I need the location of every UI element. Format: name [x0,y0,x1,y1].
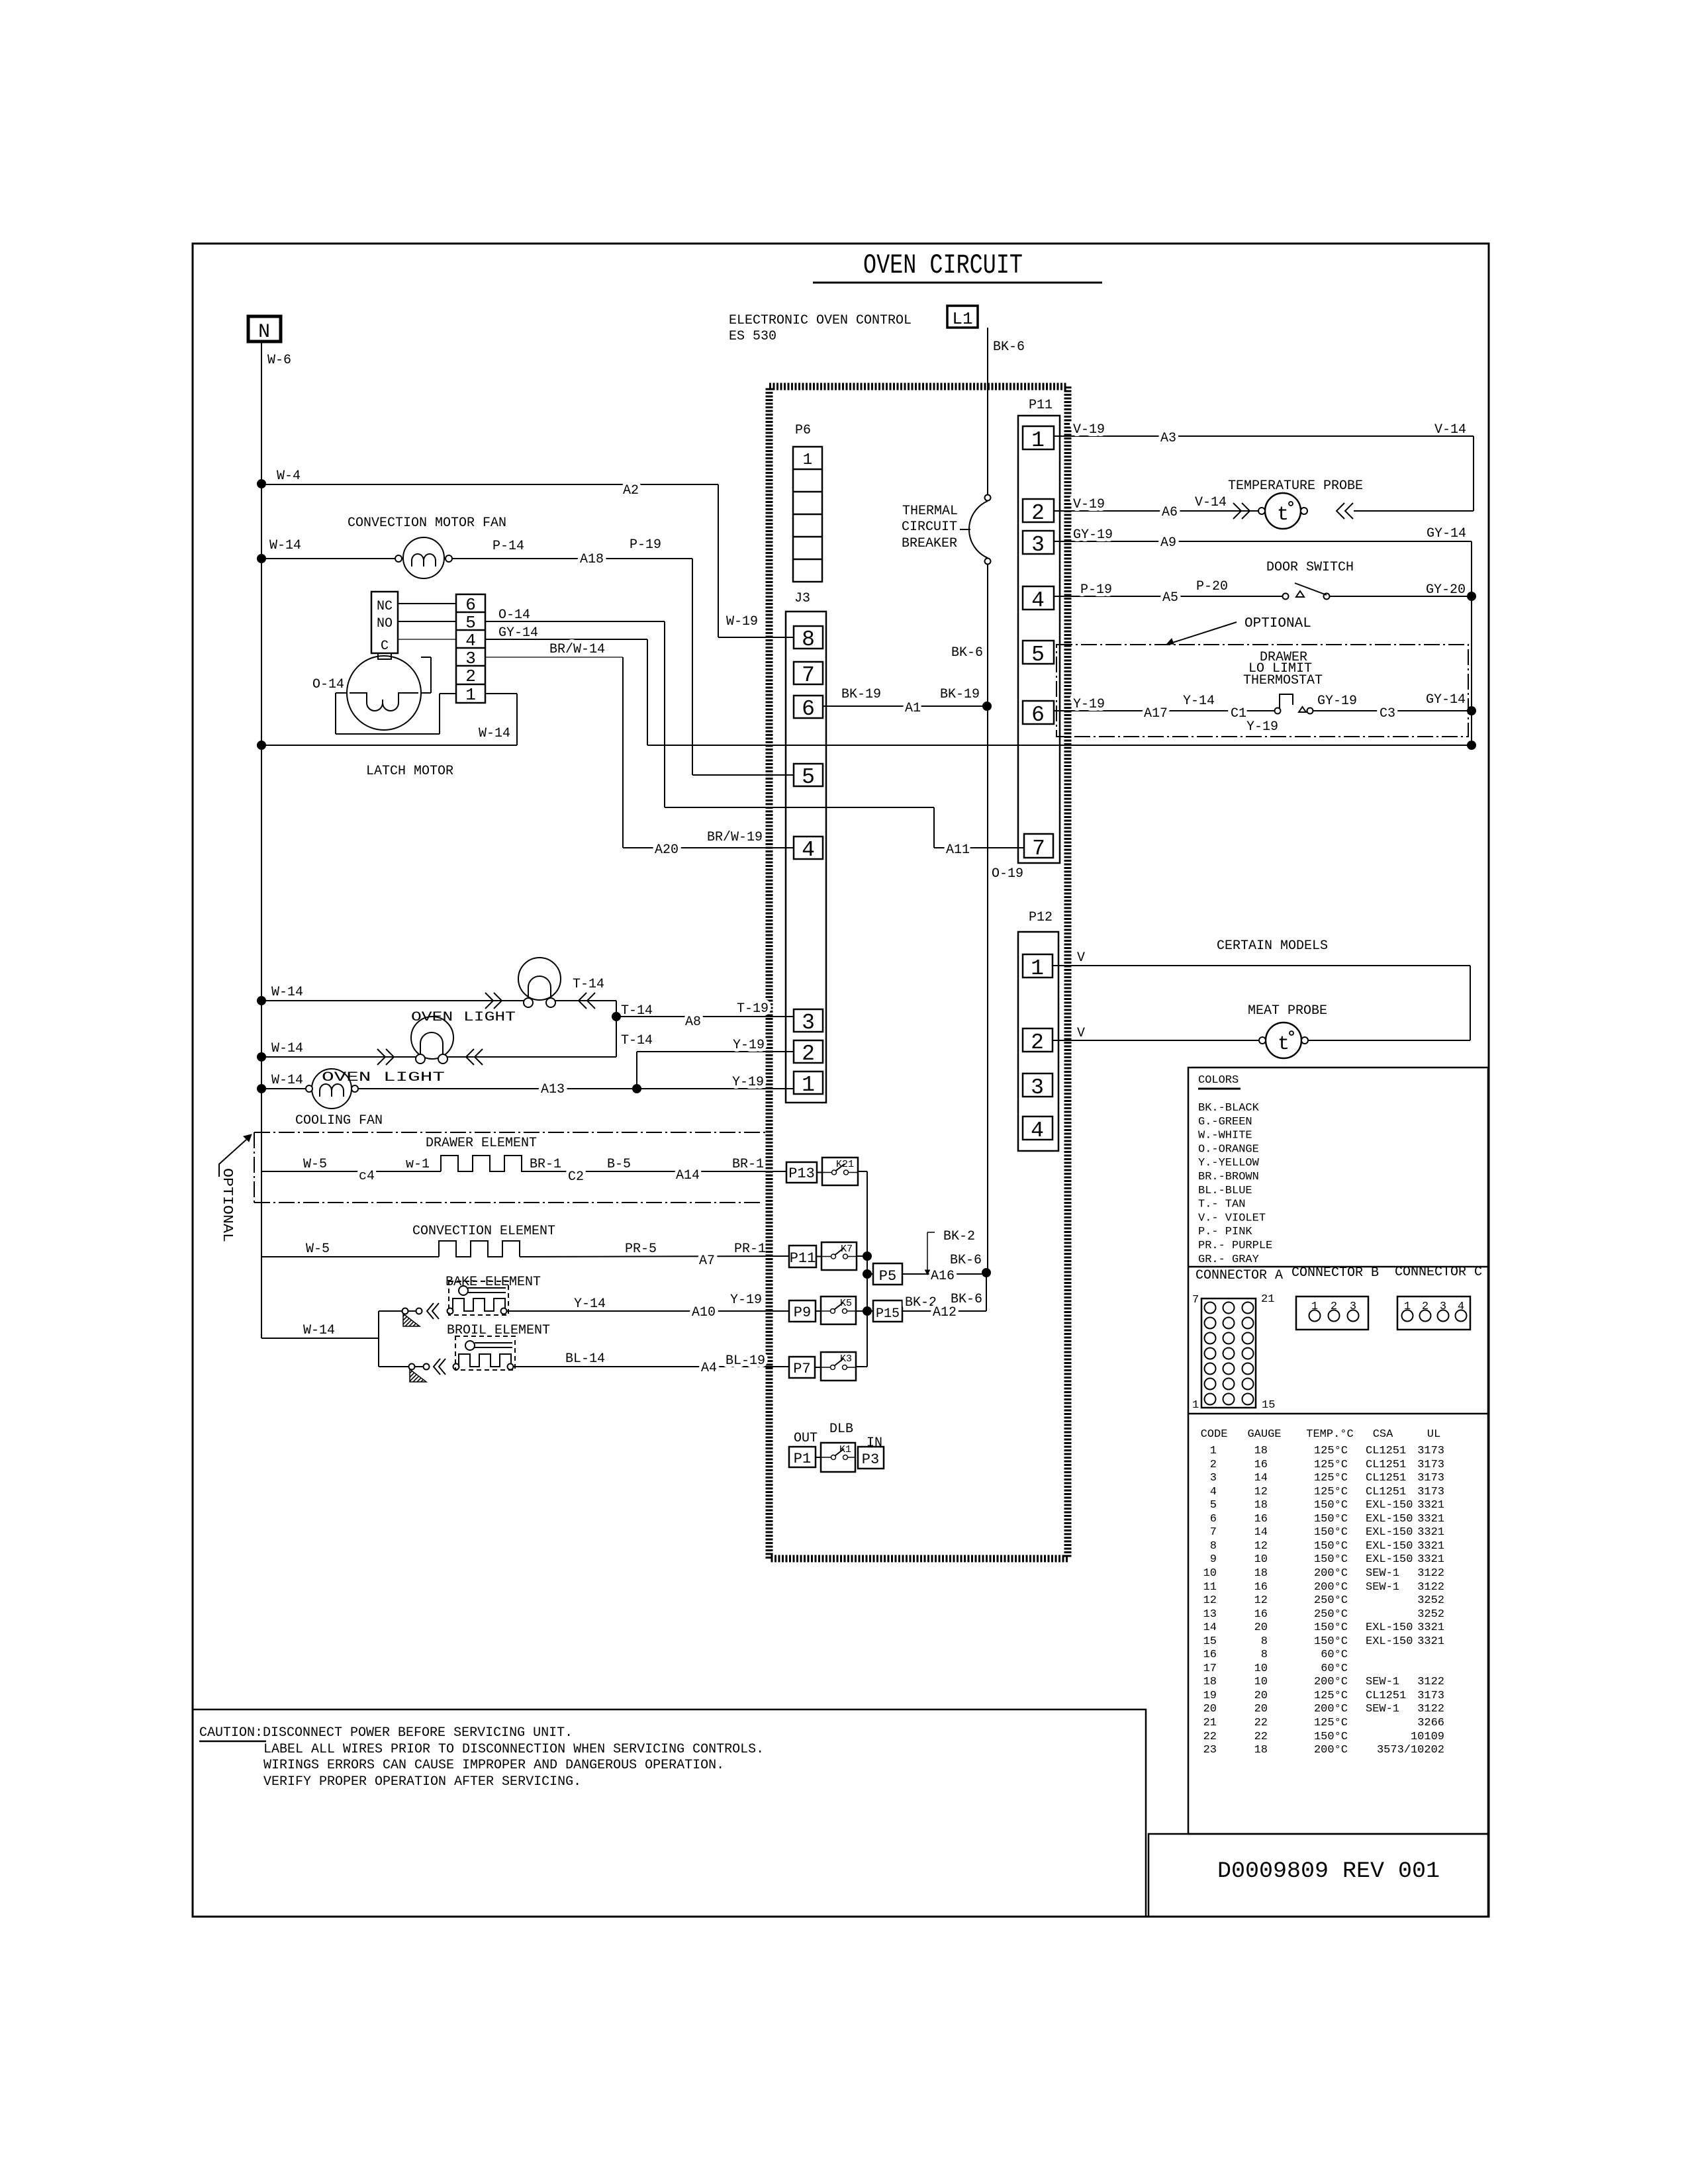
svg-text:200°C: 200°C [1314,1676,1348,1688]
svg-text:60°C: 60°C [1321,1649,1348,1661]
svg-text:P1: P1 [794,1451,811,1467]
svg-text:EXL-150: EXL-150 [1366,1553,1413,1566]
svg-text:K1: K1 [839,1444,851,1455]
svg-text:BL-19: BL-19 [726,1353,765,1369]
svg-text:A20: A20 [655,842,679,858]
svg-text:T-14: T-14 [621,1033,653,1048]
wire P12 pin2 V to meat probe [1053,1040,1259,1041]
svg-text:EXL-150: EXL-150 [1366,1621,1413,1634]
svg-text:10: 10 [1254,1553,1268,1566]
svg-text:C2: C2 [568,1169,584,1185]
svg-text:7: 7 [1192,1294,1199,1306]
svg-text:G.-GREEN: G.-GREEN [1198,1116,1252,1128]
svg-text:8: 8 [1261,1649,1268,1661]
svg-text:200°C: 200°C [1314,1703,1348,1715]
svg-text:3321: 3321 [1417,1621,1444,1634]
svg-text:150°C: 150°C [1314,1553,1348,1566]
svg-text:4: 4 [1031,1118,1044,1143]
svg-text:GY-14: GY-14 [1426,692,1466,707]
svg-text:GY-14: GY-14 [1427,526,1466,541]
svg-text:A18: A18 [580,552,604,567]
svg-text:18: 18 [1254,1567,1268,1580]
svg-text:A7: A7 [699,1253,715,1269]
svg-text:2: 2 [1031,501,1045,525]
svg-text:PR-5: PR-5 [625,1242,657,1257]
svg-text:CL1251: CL1251 [1366,1445,1406,1457]
svg-text:V-19: V-19 [1073,497,1105,512]
svg-text:V-14: V-14 [1434,422,1466,437]
P11 pin 1 [1023,426,1054,449]
svg-text:12: 12 [1254,1486,1268,1498]
svg-text:3321: 3321 [1417,1540,1444,1553]
svg-text:BK-19: BK-19 [940,687,980,702]
svg-text:1: 1 [1031,428,1045,453]
svg-text:125°C: 125°C [1314,1472,1348,1484]
svg-text:L1: L1 [952,309,972,329]
svg-text:1: 1 [802,1073,815,1097]
svg-text:2: 2 [1422,1300,1429,1313]
svg-text:ES 530: ES 530 [729,329,776,344]
svg-text:CSA: CSA [1373,1428,1393,1441]
svg-text:CERTAIN MODELS: CERTAIN MODELS [1217,938,1328,954]
svg-text:OVEN CIRCUIT: OVEN CIRCUIT [863,250,1023,281]
svg-text:W-14: W-14 [479,726,510,741]
svg-text:3: 3 [1440,1300,1446,1313]
svg-text:CONNECTOR C: CONNECTOR C [1395,1265,1482,1280]
relay contact K5 [821,1297,856,1324]
oven light 2 [257,1052,266,1062]
svg-text:P9: P9 [794,1304,811,1321]
P11 pin 3 [1023,531,1054,554]
plug P9 [789,1300,816,1322]
J3 pin 2 [794,1040,823,1063]
svg-text:BK-6: BK-6 [951,645,983,660]
svg-text:4: 4 [1458,1300,1464,1313]
svg-text:A8: A8 [685,1015,701,1030]
svg-text:VERIFY PROPER OPERATION AFTER: VERIFY PROPER OPERATION AFTER SERVICING. [263,1774,581,1790]
svg-text:3252: 3252 [1417,1608,1444,1621]
svg-text:O-19: O-19 [992,866,1023,882]
svg-text:P11: P11 [790,1250,816,1267]
svg-text:D0009809 REV 001: D0009809 REV 001 [1217,1859,1440,1884]
svg-text:6: 6 [802,697,815,721]
J3 pin 6 [794,696,823,718]
svg-text:3321: 3321 [1417,1553,1444,1566]
svg-text:5: 5 [802,765,815,790]
svg-text:BREAKER: BREAKER [902,536,957,551]
svg-text:Y-19: Y-19 [1246,719,1278,735]
svg-text:A4: A4 [701,1361,717,1376]
svg-text:A5: A5 [1162,590,1178,606]
svg-text:150°C: 150°C [1314,1513,1348,1525]
svg-text:3122: 3122 [1417,1703,1444,1715]
svg-text:DRAWER ELEMENT: DRAWER ELEMENT [426,1136,537,1151]
bake element dashed outline + heater [449,1281,508,1315]
connector P12 outline [1018,932,1058,1151]
svg-text:3252: 3252 [1417,1594,1444,1607]
svg-text:V-14: V-14 [1195,495,1227,510]
wire P15 to A12 to BK-6 vertical [902,1310,986,1312]
svg-text:1: 1 [1192,1399,1199,1412]
svg-text:3: 3 [1350,1300,1356,1313]
svg-text:LATCH MOTOR: LATCH MOTOR [366,764,453,779]
svg-text:O-14: O-14 [498,608,530,623]
svg-text:A9: A9 [1160,535,1176,551]
svg-text:8: 8 [1210,1540,1217,1553]
plug P11 [789,1246,816,1267]
svg-text:BK-6: BK-6 [993,340,1025,355]
svg-text:P13: P13 [788,1165,815,1182]
plug P3 [858,1447,884,1469]
svg-text:150°C: 150°C [1314,1540,1348,1553]
svg-text:TEMP.°C: TEMP.°C [1306,1428,1353,1441]
svg-text:16: 16 [1254,1581,1268,1594]
svg-text:BL.-BLUE: BL.-BLUE [1198,1185,1252,1197]
wire C to pin 4 [398,639,456,640]
svg-text:V.- VIOLET: V.- VIOLET [1198,1212,1266,1224]
svg-text:2: 2 [1331,1300,1337,1313]
svg-text:150°C: 150°C [1314,1731,1348,1743]
svg-text:3: 3 [1031,1075,1044,1100]
svg-text:3: 3 [1031,533,1045,557]
broil chassis ground [409,1364,415,1370]
svg-text:t: t [1277,504,1289,526]
svg-text:3173: 3173 [1417,1486,1444,1498]
svg-text:OVEN LIGHT: OVEN LIGHT [322,1070,445,1085]
svg-text:BK-6: BK-6 [951,1292,982,1307]
svg-text:4: 4 [802,838,815,862]
svg-text:21: 21 [1261,1293,1274,1306]
svg-text:P7: P7 [793,1361,810,1377]
svg-text:EXL-150: EXL-150 [1366,1540,1413,1553]
svg-text:CONNECTOR A: CONNECTOR A [1196,1268,1283,1283]
wire BK-6 breaker to A1 junction [987,564,988,706]
svg-text:A16: A16 [931,1269,955,1284]
svg-text:BK-2: BK-2 [905,1295,937,1310]
svg-text:OPTIONAL: OPTIONAL [1244,616,1311,631]
svg-text:W-4: W-4 [277,469,301,484]
svg-text:4: 4 [1210,1486,1217,1498]
svg-text:18: 18 [1254,1445,1268,1457]
svg-text:LABEL ALL WIRES PRIOR TO DISCO: LABEL ALL WIRES PRIOR TO DISCONNECTION W… [263,1742,764,1757]
svg-text:125°C: 125°C [1314,1717,1348,1729]
node L1 [947,306,978,328]
svg-text:11: 11 [1203,1581,1217,1594]
svg-text:UL: UL [1427,1428,1440,1441]
svg-text:W-19: W-19 [726,614,758,629]
svg-text:19: 19 [1203,1690,1217,1702]
svg-text:150°C: 150°C [1314,1621,1348,1634]
svg-text:125°C: 125°C [1314,1459,1348,1471]
svg-text:BR-1: BR-1 [732,1157,764,1172]
svg-text:200°C: 200°C [1314,1744,1348,1756]
svg-text:8: 8 [1261,1635,1268,1648]
wire P11 pin1 V-19/A3/V-14 temperature probe loop [1054,435,1474,437]
P11 pin 7 [1024,834,1053,858]
P11 pin 5 [1023,641,1054,664]
svg-text:A6: A6 [1162,505,1178,520]
svg-text:150°C: 150°C [1314,1526,1348,1539]
svg-text:P-19: P-19 [630,537,661,553]
svg-text:5: 5 [1031,643,1045,667]
svg-text:3122: 3122 [1417,1676,1444,1688]
control board hatched border [769,387,1068,1559]
svg-text:DLB: DLB [829,1422,853,1437]
svg-text:10109: 10109 [1411,1731,1444,1743]
svg-text:10: 10 [1203,1567,1217,1580]
svg-text:c4: c4 [359,1169,375,1184]
latch motor switch NC/NO/C [371,592,398,653]
svg-text:12: 12 [1254,1540,1268,1553]
svg-text:SEW-1: SEW-1 [1366,1676,1399,1688]
svg-text:A3: A3 [1160,431,1176,446]
drawer lo limit thermostat dash-dot box [1056,645,1468,737]
svg-text:WIRINGS ERRORS CAN CAUSE IMPRO: WIRINGS ERRORS CAN CAUSE IMPROPER AND DA… [263,1758,724,1773]
wire W-4 / A2 to J3 pin 8 [257,479,266,488]
svg-text:THERMAL: THERMAL [902,504,958,519]
svg-text:CL1251: CL1251 [1366,1472,1406,1484]
svg-text:5: 5 [1210,1499,1217,1512]
svg-text:W-14: W-14 [271,985,303,1000]
svg-text:9: 9 [1210,1553,1217,1566]
svg-text:C3: C3 [1380,706,1395,721]
svg-text:GR.- GRAY: GR.- GRAY [1198,1253,1259,1266]
svg-text:T-19: T-19 [737,1001,769,1017]
svg-text:3: 3 [1210,1472,1217,1484]
svg-text:C: C [381,639,389,654]
svg-text:P15: P15 [876,1306,900,1322]
svg-text:7: 7 [1210,1526,1217,1539]
svg-text:250°C: 250°C [1314,1594,1348,1607]
svg-text:A12: A12 [933,1305,957,1320]
connector P11 outline [1018,416,1060,863]
svg-text:3266: 3266 [1417,1717,1444,1729]
svg-text:CIRCUIT: CIRCUIT [902,520,957,535]
svg-text:2: 2 [802,1042,815,1066]
svg-text:P-19: P-19 [1080,582,1112,598]
wire P-14 / A18 / P-19 to J3 pin 5 [452,558,692,559]
P12 pin 1 [1023,954,1053,978]
svg-text:P6: P6 [795,423,811,438]
svg-text:14: 14 [1254,1526,1268,1539]
svg-text:1: 1 [1210,1445,1217,1457]
wire P5 to A16 to BK-6 junction [902,1273,986,1275]
svg-text:3173: 3173 [1417,1472,1444,1484]
bake chassis ground [402,1308,408,1314]
plug P1 [789,1447,816,1467]
wire P11 pin3 GY-19/A9/GY-14 [1054,541,1472,542]
svg-text:W.-WHITE: W.-WHITE [1198,1130,1252,1142]
svg-text:3321: 3321 [1417,1635,1444,1648]
plug P7 [789,1357,815,1378]
svg-text:20: 20 [1254,1621,1268,1634]
svg-text:t: t [1278,1033,1289,1056]
svg-text:P11: P11 [1029,398,1053,413]
svg-text:150°C: 150°C [1314,1499,1348,1512]
svg-text:CL1251: CL1251 [1366,1459,1406,1471]
latch motor connector 6..1 [456,594,485,703]
svg-text:P.- PINK: P.- PINK [1198,1226,1252,1238]
svg-text:Y-14: Y-14 [574,1297,606,1312]
right column box (colors/connectors/table) [1188,1068,1488,1834]
svg-text:7: 7 [802,663,815,688]
svg-text:15: 15 [1203,1635,1217,1648]
relay contact K7 [821,1242,857,1270]
svg-text:3173: 3173 [1417,1445,1444,1457]
svg-text:Y-19: Y-19 [732,1075,764,1090]
wire NO to pin 5 [398,621,456,622]
svg-text:18: 18 [1254,1744,1268,1756]
svg-text:EXL-150: EXL-150 [1366,1499,1413,1512]
svg-text:W-5: W-5 [306,1242,330,1257]
svg-text:EXL-150: EXL-150 [1366,1526,1413,1539]
relay contact K3 [821,1352,856,1381]
node N (neutral) [248,316,281,341]
wire A13 / Y-19 to J3 pin 1 [358,1088,794,1089]
wire Y-19 branch to J3 pin 2 [636,1052,637,1089]
J3 pin 3 [794,1009,823,1032]
svg-text:W-6: W-6 [267,353,291,368]
svg-text:21: 21 [1203,1717,1217,1729]
thermostat contacts [1275,708,1281,714]
svg-text:20: 20 [1254,1690,1268,1702]
wire BK-6 from L1 [987,328,988,495]
svg-text:8: 8 [802,627,815,652]
svg-text:3122: 3122 [1417,1567,1444,1580]
svg-text:20: 20 [1203,1703,1217,1715]
svg-text:J3: J3 [794,591,810,606]
svg-text:125°C: 125°C [1314,1486,1348,1498]
divider connectors/table [1188,1413,1488,1415]
page border frame [193,244,1489,1917]
relay bus wire [867,1171,868,1367]
svg-text:BK-19: BK-19 [841,687,881,702]
svg-text:3173: 3173 [1417,1459,1444,1471]
svg-text:12: 12 [1254,1594,1268,1607]
svg-text:1: 1 [1404,1300,1411,1313]
svg-text:NC: NC [377,599,393,614]
cooling fan [257,1084,266,1093]
svg-text:N: N [258,321,270,343]
svg-text:1: 1 [465,685,476,705]
svg-text:C1: C1 [1231,706,1246,721]
svg-text:GY-19: GY-19 [1317,694,1357,709]
svg-text:18: 18 [1203,1676,1217,1688]
svg-text:OPTIONAL: OPTIONAL [219,1168,234,1242]
relay contact K21 [822,1158,858,1185]
svg-text:10: 10 [1254,1662,1268,1675]
svg-text:K3: K3 [840,1353,852,1365]
svg-text:22: 22 [1203,1731,1217,1743]
svg-text:O.-ORANGE: O.-ORANGE [1198,1143,1259,1156]
svg-text:CONNECTOR B: CONNECTOR B [1291,1265,1379,1281]
wire W-14 return pin 1 to rail [485,693,517,694]
svg-text:3321: 3321 [1417,1499,1444,1512]
svg-text:A10: A10 [692,1305,716,1320]
relay contact K1 [821,1443,855,1472]
svg-text:W-14: W-14 [303,1323,335,1338]
svg-text:CONVECTION ELEMENT: CONVECTION ELEMENT [412,1224,555,1239]
svg-text:P5: P5 [879,1268,896,1285]
svg-text:2: 2 [1031,1030,1044,1055]
svg-text:O-14: O-14 [312,677,344,692]
svg-text:CL1251: CL1251 [1366,1690,1406,1702]
svg-text:PR-1: PR-1 [734,1242,766,1257]
divider colors/connectors [1188,1266,1488,1268]
plug P13 [786,1162,817,1183]
wire Y-14 / A10 / Y-19 to P9 [506,1310,789,1312]
svg-text:IN: IN [867,1435,882,1451]
svg-text:MEAT PROBE: MEAT PROBE [1248,1003,1327,1019]
svg-text:18: 18 [1254,1499,1268,1512]
svg-text:B-5: B-5 [607,1157,631,1172]
svg-text:14: 14 [1254,1472,1268,1484]
J3 pin 1 [794,1071,823,1094]
svg-text:A1: A1 [905,701,921,716]
convection motor fan [257,554,266,563]
svg-text:3: 3 [802,1011,815,1035]
svg-text:250°C: 250°C [1314,1608,1348,1621]
svg-text:5: 5 [465,613,476,633]
svg-text:A2: A2 [623,483,639,498]
svg-text:SEW-1: SEW-1 [1366,1703,1399,1715]
svg-text:1: 1 [1031,956,1044,981]
plug P5 [873,1263,902,1285]
svg-text:Y-19: Y-19 [1073,697,1105,712]
svg-text:Y.-YELLOW: Y.-YELLOW [1198,1157,1260,1169]
svg-text:P-14: P-14 [492,539,524,554]
svg-text:BR-1: BR-1 [530,1157,561,1172]
svg-text:DOOR SWITCH: DOOR SWITCH [1266,560,1354,575]
svg-text:COLORS: COLORS [1198,1074,1239,1087]
oven light 1 [257,996,266,1005]
svg-text:2: 2 [465,666,476,686]
svg-text:EXL-150: EXL-150 [1366,1513,1413,1525]
svg-text:BK-2: BK-2 [943,1229,975,1244]
svg-text:EXL-150: EXL-150 [1366,1635,1413,1648]
svg-text:1: 1 [803,451,812,469]
svg-text:T-14: T-14 [573,977,604,992]
svg-text:Y-14: Y-14 [1183,694,1215,709]
svg-text:3321: 3321 [1417,1526,1444,1539]
leader arrow to drawer element box [219,1140,246,1177]
svg-text:A13: A13 [541,1082,565,1097]
svg-text:7: 7 [1032,837,1045,861]
svg-text:2: 2 [1210,1459,1217,1471]
P12 pin 2 [1023,1028,1053,1052]
svg-text:15: 15 [1262,1399,1275,1412]
P11 pin 4 [1023,586,1054,610]
svg-text:BR.-BROWN: BR.-BROWN [1198,1171,1259,1183]
broil element dashed outline + heater [455,1336,515,1370]
wire BL-14 / A4 / BL-19 to P7 [513,1366,789,1367]
J3 pin 5 [794,764,823,786]
svg-text:4: 4 [1031,588,1045,613]
wire C3/GY-14 to junction [1313,710,1472,711]
svg-text:22: 22 [1254,1717,1268,1729]
svg-text:A14: A14 [676,1168,700,1183]
svg-text:200°C: 200°C [1314,1567,1348,1580]
svg-text:BR/W-14: BR/W-14 [549,642,605,657]
svg-text:CAUTION:DISCONNECT POWER BEFOR: CAUTION:DISCONNECT POWER BEFORE SERVICIN… [199,1725,573,1741]
P11 pin 2 [1023,499,1054,522]
wire BK-19 / A1 from J3 pin 6 [823,705,988,707]
wire BK-6 down through board [987,706,988,1273]
svg-text:BR/W-19: BR/W-19 [707,830,763,845]
svg-text:3122: 3122 [1417,1581,1444,1594]
P12 pin 4 [1023,1116,1053,1140]
svg-text:CODE: CODE [1201,1428,1228,1441]
